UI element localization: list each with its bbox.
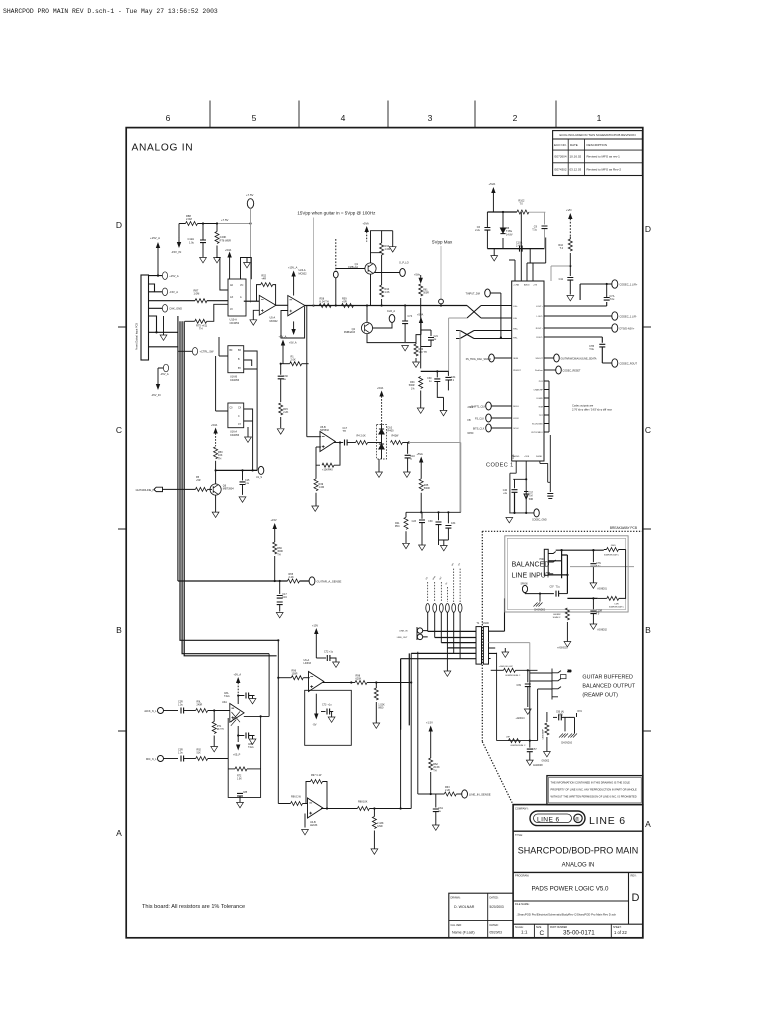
drawn-by block [449,893,513,938]
node [339,441,341,443]
resistor R44 [380,257,390,307]
resistor RT6 [215,224,231,258]
svg-text:+15V: +15V [312,624,318,628]
ground [413,362,420,367]
svg-text:GUITAR/LINE_IN: GUITAR/LINE_IN [136,489,156,492]
svg-text:5: 5 [252,113,257,123]
resistor RT5 [185,304,228,330]
chassis ground pair [559,717,577,744]
svg-text:DATE: DATE [570,143,578,147]
op-amp U5-A [259,295,278,322]
transistor Q2 [344,322,373,334]
wire inverting stub [316,446,321,448]
svg-text:LOUT-: LOUT- [537,316,543,318]
svg-text:T.02u: T.02u [248,747,254,749]
svg-text:LIN+: LIN+ [513,306,518,308]
capacitor C5 [343,427,356,446]
svg-text:+GND13: +GND13 [516,718,526,720]
node [527,669,531,742]
svg-text:+5R: +5R [342,301,347,304]
resistor R42 [391,435,409,445]
svg-text:M100: M100 [483,622,490,625]
svg-text:-15V_A: -15V_A [169,290,178,294]
ground [237,802,244,807]
resistor R5 [195,476,212,492]
resistor R15 [279,403,289,428]
chassis ground [534,593,546,612]
wire codec bottom [509,435,550,513]
svg-text:D. WOLNAR: D. WOLNAR [454,905,475,909]
power +15V_A [150,236,160,276]
capacitor C21 [421,330,439,347]
power +5VA dashed [363,222,369,242]
svg-text:PwrDwn: PwrDwn [535,369,544,372]
sheet frame [118,101,651,938]
net oval CTRL_SW [179,348,214,356]
ground [382,231,397,252]
resistor R98 [351,675,376,685]
resistor R65 [288,573,300,583]
ground [403,543,410,548]
capacitor C8A [224,692,256,704]
wire U16-B left [219,337,228,356]
svg-text:(REAMP OUT): (REAMP OUT) [582,693,618,699]
svg-text:2.0M: 2.0M [186,217,192,221]
svg-text:PADS POWER LOGIC V5.0: PADS POWER LOGIC V5.0 [532,886,609,893]
transistor Q1 [348,263,376,274]
svg-text:03.12.03: 03.12.03 [570,167,582,171]
svg-text:..SharcPOD Pro/Electrics/Schem: ..SharcPOD Pro/Electrics/Schematic/BodyR… [516,913,616,917]
svg-text:ANALOG IN: ANALOG IN [132,143,194,154]
wire gray branch [551,266,570,281]
svg-text:TH: TH [433,769,437,772]
svg-text:LOUT+: LOUT+ [536,306,544,308]
svg-text:+CTRL_SW: +CTRL_SW [200,350,214,354]
svg-text:1.0M: 1.0M [194,292,200,296]
svg-text:MP5: MP5 [558,715,563,717]
ground [419,545,426,550]
svg-text:2.76 Vp-p dike / 0.63 Vp-p dif: 2.76 Vp-p dike / 0.63 Vp-p diff max [572,408,613,412]
node [350,681,352,683]
svg-text:+5VS: +5VS [524,456,530,458]
diode clamp D10 [377,424,394,459]
svg-text:AGND08: AGND08 [533,764,543,767]
svg-text:6: 6 [166,113,171,123]
ground [312,506,319,511]
capacitor C16 [277,581,288,612]
svg-text:L8P: L8P [506,737,510,739]
svg-text:ECOs INCLUDED IN THIS SCHEMATI: ECOs INCLUDED IN THIS SCHEMATIC/PCB REVI… [559,133,635,137]
wire jack drops to bus [428,612,460,658]
power -05_P [233,736,241,757]
svg-text:G_P_LO: G_P_LO [399,262,409,265]
ground AGND08 [526,760,543,767]
svg-text:C74: C74 [408,315,413,318]
wire drop extra [400,659,402,809]
node [408,441,410,443]
net oval -15V_A [162,288,178,296]
svg-text:+5VA: +5VA [225,248,231,252]
jack contact dashes [428,569,460,602]
svg-text:SDIN: SDIN [513,358,518,360]
svg-text:MC602: MC602 [299,272,308,275]
svg-text:2NF1: 2NF1 [468,406,475,409]
ground [371,849,378,854]
svg-text:10K: 10K [363,801,368,804]
svg-text:51K: 51K [197,752,202,755]
capacitor C12A [188,224,207,258]
svg-text:VC: VC [240,284,244,287]
svg-text:TH: TH [343,430,347,433]
svg-text:SCLK/CMD: SCLK/CMD [532,424,543,426]
wire collector row [216,469,258,471]
ground [491,249,498,261]
capacitor ground C41 [547,494,553,499]
port LINE_IN/LINE_OUT [397,627,428,640]
wire lower row [567,597,597,599]
svg-text:LINE 6: LINE 6 [537,816,560,823]
svg-text:ROUT+: ROUT+ [536,328,544,330]
svg-text:CHK_GND: CHK_GND [169,307,182,311]
power -15V_IN [171,224,181,255]
svg-text:+4R: +4R [261,278,266,281]
port MIC_IN_L [146,756,178,762]
port JACK_IN_L [144,708,178,714]
svg-text:FS_CLK: FS_CLK [475,418,484,421]
line6 logo [530,811,585,826]
svg-text:+5R: +5R [196,479,201,482]
svg-text:CD4053: CD4053 [230,434,240,437]
svg-text:+1.5V: +1.5V [426,721,433,725]
svg-text:Revised to MFG as Rev-2: Revised to MFG as Rev-2 [587,167,622,171]
svg-text:SHEET:: SHEET: [613,926,622,929]
svg-text:+VS: +VS [533,285,538,287]
svg-text:+5V_A: +5V_A [289,342,297,345]
wire top loop [580,284,611,300]
jack labels small [426,563,462,586]
resistor R102 [517,200,529,215]
svg-text:BX: BX [238,350,242,352]
svg-text:PROPERTY OF LINE 6 INC. ANY R: PROPERTY OF LINE 6 INC. ANY REPRODUCTION… [551,788,637,792]
svg-text:CHGND10: CHGND10 [561,743,573,745]
svg-text:SDOUT: SDOUT [536,358,544,360]
wire output [334,442,343,444]
ground [245,427,252,442]
capacitor C3L [178,749,196,762]
resistor R99 [374,683,385,724]
power +5VA dashed [211,423,217,446]
node dots on main wire [312,304,442,306]
svg-text:REV:: REV: [631,874,637,878]
svg-text:D: D [645,224,651,234]
resistor R88 [186,214,198,226]
svg-text:500R: 500R [423,292,429,295]
svg-text:C90 (A): C90 (A) [556,711,564,714]
svg-text:RT2: RT2 [237,776,242,778]
svg-text:E072604: E072604 [555,155,567,159]
svg-text:35-00-0171: 35-00-0171 [563,930,595,937]
wire [179,223,217,225]
wire U16-A left [216,356,228,411]
svg-text:5/20/2003: 5/20/2003 [490,905,504,909]
capacitor C72 [316,651,336,663]
ground [212,512,219,517]
svg-text:C: C [645,425,651,435]
wire +7.5V feed down [250,224,252,303]
analog switch U16-B [228,346,244,382]
svg-text:TH: TH [199,327,203,331]
svg-text:+5VA: +5VA [363,222,369,226]
wire gray crossing [570,566,634,568]
resistor R33 [409,377,423,409]
note 15Vpp [297,211,376,306]
svg-text:LIN-: LIN- [513,318,517,320]
svg-text:1.0u: 1.0u [178,704,183,707]
svg-text:+5VA: +5VA [489,182,496,186]
svg-text:C8B: C8B [248,744,253,746]
svg-text:A: A [116,828,122,838]
svg-text:C12A: C12A [188,237,195,241]
label D7A [577,710,583,717]
ground [567,296,574,301]
wire gray feed down [307,436,321,438]
ground [276,613,283,618]
wire pin hoops [216,258,251,291]
resistor R96 [277,670,310,680]
svg-text:K.04 TH: K.04 TH [320,301,329,304]
svg-text:D: D [632,892,640,904]
op-amp U6-A [304,659,324,692]
svg-text:LD333: LD333 [304,662,312,665]
resistor R58 [319,298,331,308]
wire main run [305,305,467,307]
svg-text:CD4053: CD4053 [230,321,240,325]
svg-text:R40: R40 [328,469,333,472]
svg-text:1 of 22: 1 of 22 [614,930,627,935]
capacitor C15 [240,470,251,495]
svg-text:DESCRIPTION: DESCRIPTION [587,143,608,147]
svg-text:C34: C34 [451,522,456,525]
svg-text:1.0K: 1.0K [237,779,242,781]
op-amp U4-B [308,798,323,827]
svg-text:-15V_IN: -15V_IN [171,250,181,254]
ground secondary [502,648,509,657]
svg-text:D: D [116,220,122,230]
svg-text:TINPUT_DM: TINPUT_DM [466,292,480,295]
svg-text:SHARCPOD PRO MAIN REV D.sch-1: SHARCPOD PRO MAIN REV D.sch-1 - Tue May … [3,8,218,15]
svg-text:CODEC_1.L/R+: CODEC_1.L/R+ [620,284,638,287]
resistor R41 [395,512,408,543]
column labels [166,113,602,123]
svg-text:DGND: DGND [536,456,543,458]
wire rise to bus [376,653,411,808]
svg-text:100R: 100R [292,673,298,676]
resistor R66 [273,542,284,581]
node [260,715,262,717]
jack contact ovals [426,604,462,613]
resistor R35 [419,479,430,513]
svg-text:PD4: PD4 [395,525,400,528]
resistor R_gnd top [604,545,626,557]
capacitor C40 [503,479,518,513]
resistor R51 feedback [257,275,276,306]
svg-text:L6R: L6R [615,604,619,606]
svg-text:240R: 240R [197,704,203,707]
capacitor C6 [475,212,490,249]
wire vref rail [421,370,449,372]
wire secondary outs [489,598,505,658]
svg-text:C40: C40 [503,490,508,492]
capacitor C34A [445,371,456,390]
svg-text:NF50: NF50 [468,432,475,435]
title block [513,805,643,938]
svg-text:C23: C23 [412,520,417,523]
wire down pair [306,306,308,437]
net oval LINE_IN_SENSE [462,790,491,798]
svg-text:ECO NO.: ECO NO. [554,143,567,147]
svg-text:RIN+: RIN+ [513,329,519,331]
svg-text:LINE_IN: LINE_IN [399,631,408,633]
svg-text:1.0M: 1.0M [319,486,325,489]
svg-text:+15V_A: +15V_A [169,274,179,278]
capacitor C30 [278,364,289,402]
svg-text:AVDD: AVDD [524,284,530,287]
capacitor C61 [433,794,444,825]
net oval FS_CLK [475,414,512,422]
svg-text:600RW100M C: 600RW100M C [511,745,526,747]
resistor R10 [558,237,572,266]
svg-text:PD/RST: PD/RST [513,370,521,372]
capacitor C10A [516,242,530,252]
wire Q2 emitter [367,334,416,343]
wire xlr rows [548,550,604,593]
net oval CODEC_RESET [544,366,581,374]
wire crossover lower [456,331,512,339]
power +VD [566,208,572,237]
ground opamp1 [250,310,259,325]
svg-text:100 TH: 100 TH [419,351,427,354]
svg-text:4: 4 [341,113,346,123]
wire dashed sense [335,239,337,272]
svg-text:GUITAR_A_SENSE: GUITAR_A_SENSE [317,579,342,583]
svg-text:CDTI/CMDO: CDTI/CMDO [531,432,543,434]
svg-text:600RW100M C: 600RW100M C [505,675,520,677]
capacitor C74 [402,306,413,343]
svg-text:LINE 6: LINE 6 [589,815,626,827]
op-amp U3-A [222,701,244,726]
svg-text:C: C [540,930,545,937]
svg-text:+GND100 L6P: +GND100 L6P [499,666,514,668]
svg-text:+VD: +VD [566,208,572,212]
net oval CHK_GND [162,305,182,313]
ground [444,671,451,676]
wire ROUT+ [544,327,612,329]
ground RT1 [211,747,218,752]
svg-text:CD4053: CD4053 [230,379,240,382]
wire secondary gray [489,643,530,671]
svg-text:T.0u: T.0u [589,348,594,351]
node [606,283,608,285]
svg-text:E074302: E074302 [555,167,567,171]
resistor R59 [342,298,354,308]
svg-text:DATED:: DATED: [490,924,499,927]
svg-text:Front (Guitar) Input PCB: Front (Guitar) Input PCB [136,323,139,350]
connector J30 [136,275,149,360]
wire secondary loop [497,653,538,741]
resistor D4 vertical [542,712,549,752]
node J1 [202,222,252,224]
power +5Va [414,274,422,283]
svg-text:R97: R97 [311,774,316,777]
svg-text:W50: W50 [378,707,384,710]
capacitor C30A [427,370,443,397]
svg-text:+7.5V: +7.5V [246,193,254,197]
svg-text:C.W: C.W [317,774,323,777]
capacitor C85 [237,792,248,802]
net oval CODEC_ROUT [612,359,638,367]
capacitor C11 [559,266,574,295]
resistor R49 [314,465,324,506]
power +5V_A [234,674,242,696]
wire output row [321,808,411,810]
transformer T1 [476,622,489,664]
wire gray aux feed [449,318,467,512]
svg-text:C57: C57 [532,748,537,751]
wire bus drop left [401,653,410,729]
capacitor C97 [550,587,568,597]
svg-text:LINE_OUT: LINE_OUT [397,637,408,639]
resistor GND100 [491,666,538,677]
resistor R88B [357,801,369,811]
svg-text:C: C [116,425,122,435]
svg-text:®: ® [575,816,579,823]
svg-text:FILE NAME:: FILE NAME: [515,902,530,906]
svg-text:AGND02: AGND02 [597,629,607,632]
wire dashed breakaway [482,531,643,804]
power +5VA [417,452,423,479]
net oval +15V_A [162,272,178,280]
ground [239,497,246,502]
svg-text:CODEC 1: CODEC 1 [486,463,514,469]
wire main input [149,300,229,302]
svg-text:DATED:: DATED: [490,896,499,899]
svg-text:600RW100M C: 600RW100M C [604,555,619,557]
wire LOUT- [544,315,612,317]
svg-text:+AGND03: +AGND03 [557,647,568,650]
op-amp U24-A [288,269,307,316]
svg-text:T.1u: T.1u [556,587,561,589]
svg-text:THE INFORMATION CONTAINED IN T: THE INFORMATION CONTAINED IN THIS DRAWIN… [551,781,631,785]
connector reamp jack [552,669,572,700]
svg-text:1.0u: 1.0u [189,240,195,244]
svg-text:BREAKAWAY PCB: BREAKAWAY PCB [610,526,637,530]
capacitor C57 [527,741,538,761]
capacitor C34 [445,512,456,540]
wire power rail bottom [487,248,544,250]
net oval G_P_LO [375,262,409,277]
node dots [274,580,281,582]
svg-text:ROUT-: ROUT- [536,337,543,339]
wire drop tip [446,648,448,671]
node dots [560,549,594,576]
svg-text:AGND: AGND [513,455,520,458]
feedback loop opamp2 [281,307,305,345]
svg-text:GND: GND [377,825,383,828]
ground GND13 [516,709,532,720]
node dots [420,511,449,513]
svg-text:CODEC_GND: CODEC_GND [532,520,547,522]
svg-text:5Vpp Max: 5Vpp Max [432,240,453,245]
